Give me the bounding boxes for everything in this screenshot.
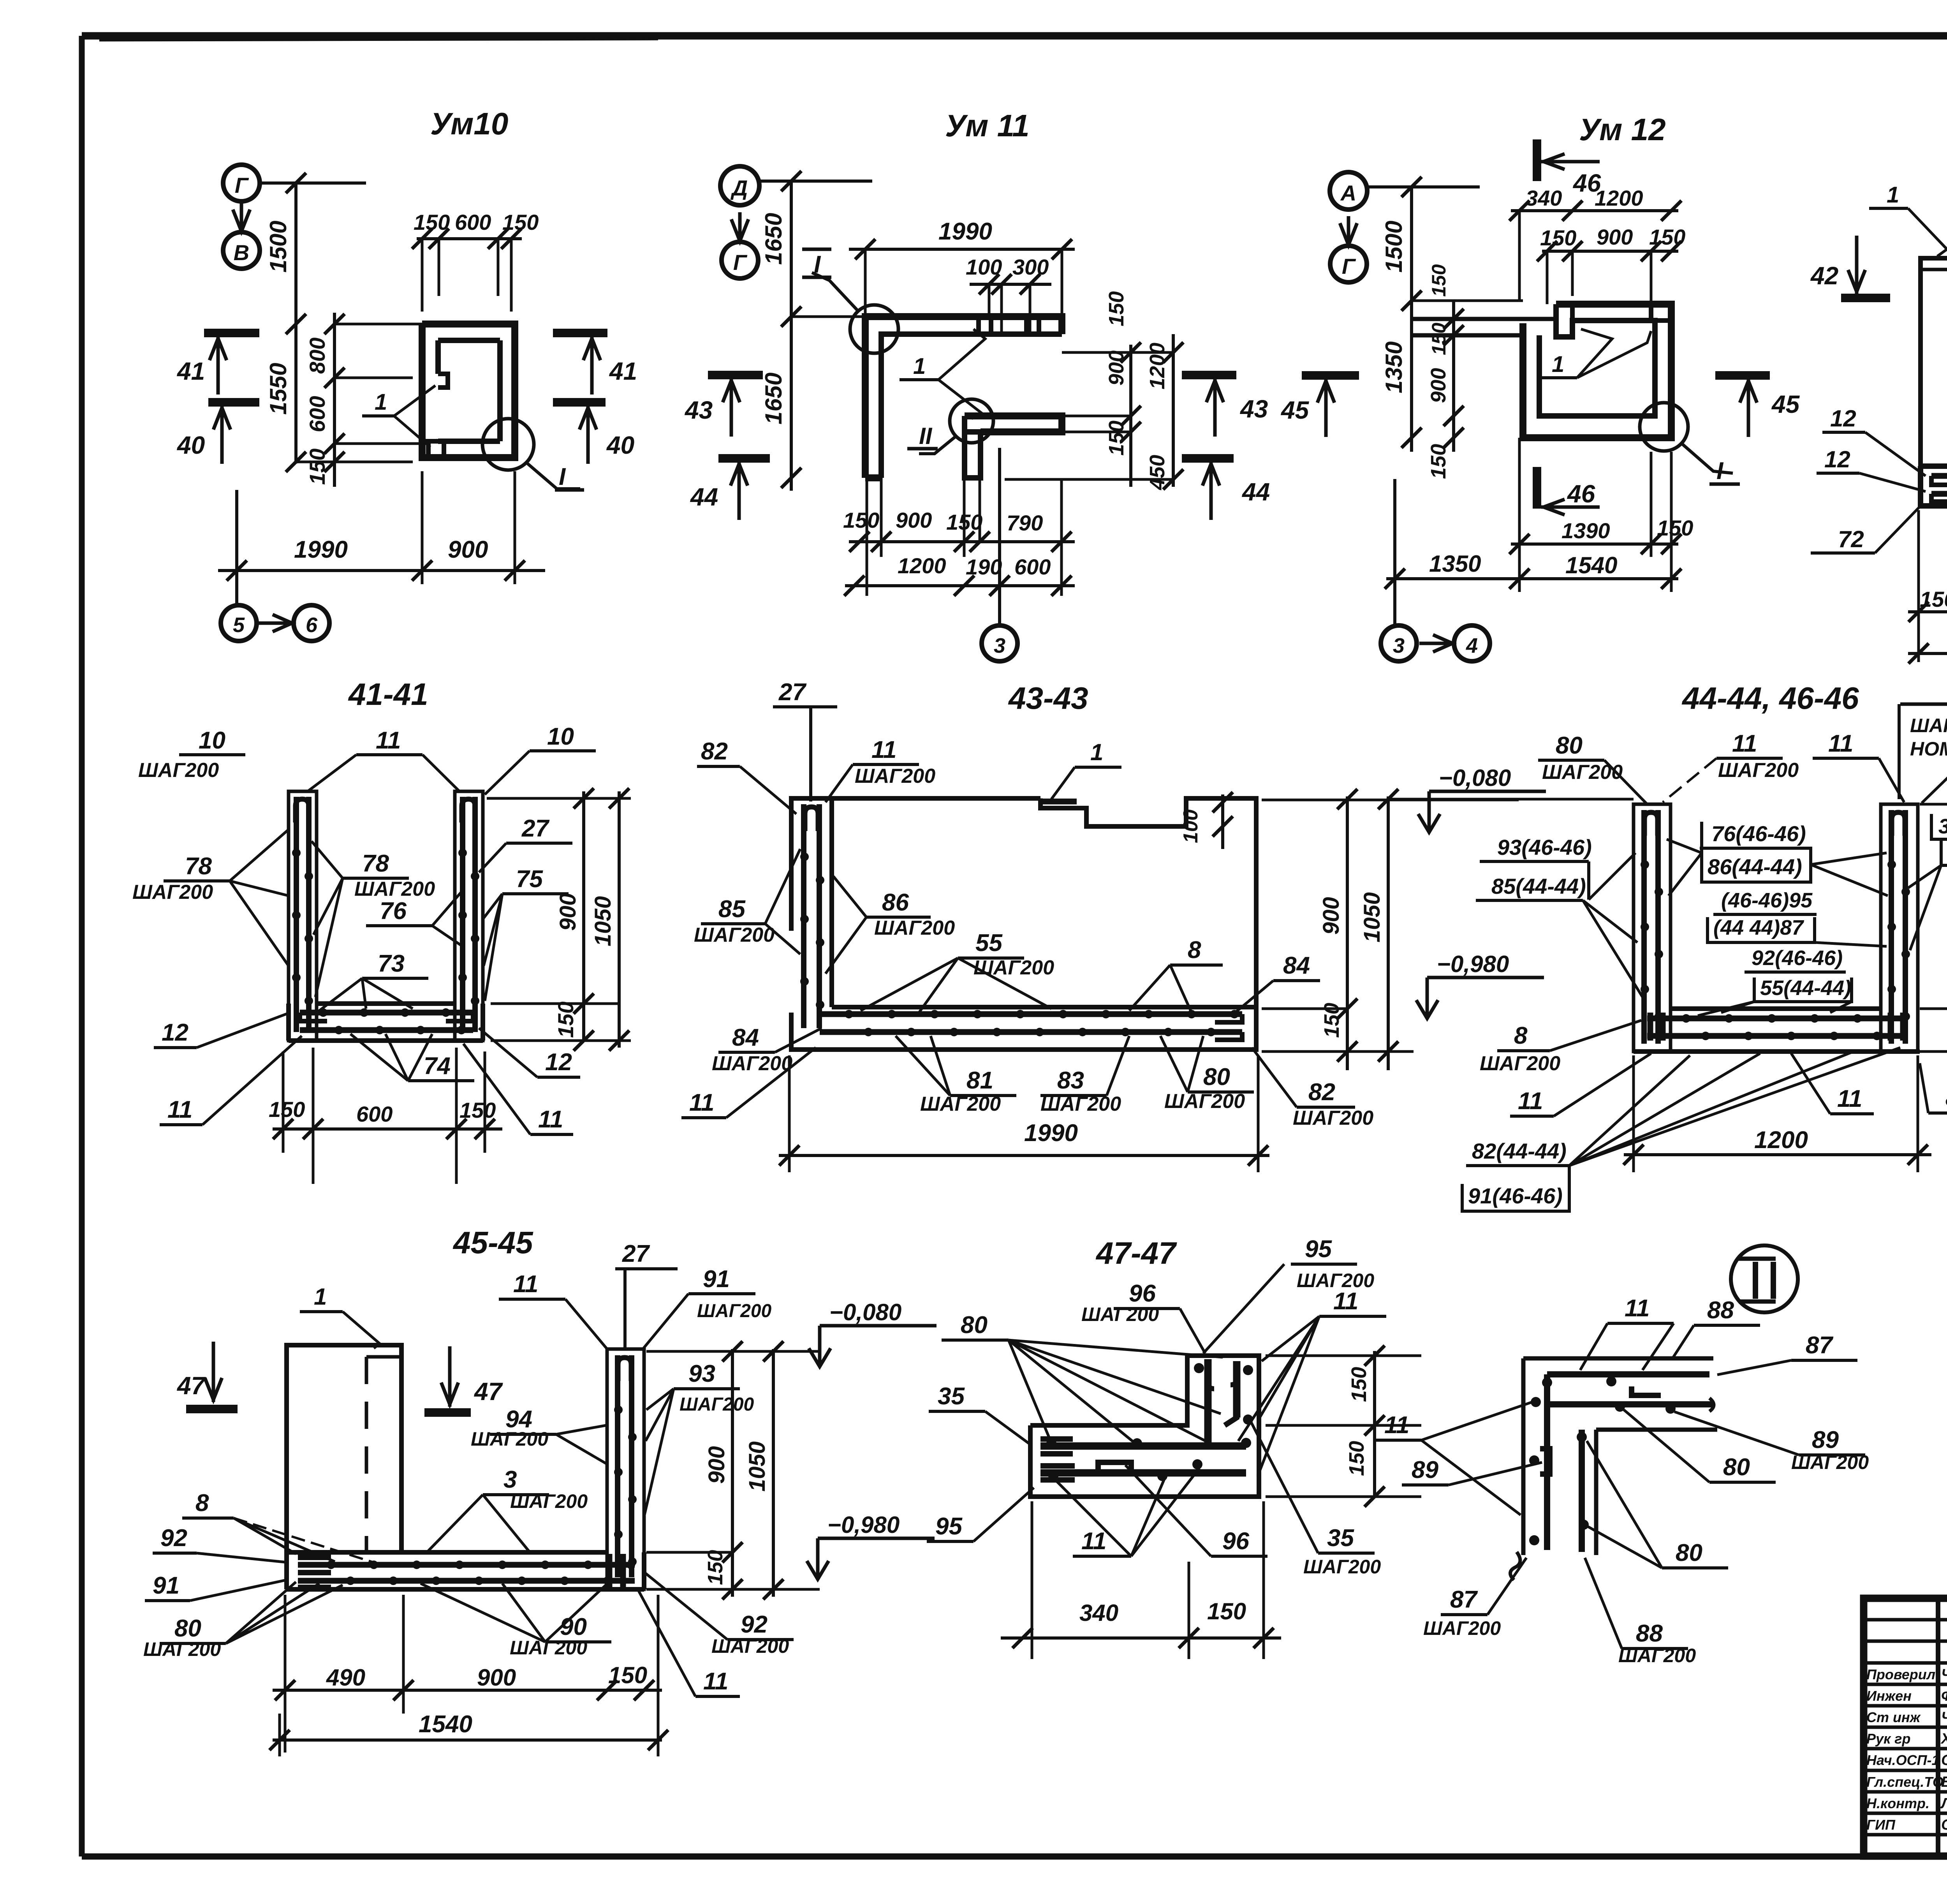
title 44-44 46-46: [1681, 681, 1859, 715]
svg-text:1540: 1540: [419, 1711, 472, 1738]
label 35 шаг200 bottom right (47-47): [1251, 1421, 1381, 1578]
svg-text:ШАГ200: ШАГ200: [974, 956, 1054, 979]
svg-text:Гл.спец.ТО: Гл.спец.ТО: [1866, 1774, 1943, 1790]
svg-text:ШАГ200: ШАГ200: [132, 881, 213, 904]
svg-text:35: 35: [1327, 1525, 1354, 1552]
svg-text:150: 150: [704, 1550, 727, 1585]
label 1 (45-45): [300, 1284, 380, 1348]
axis line and circle 3 (Um11): [982, 448, 1018, 661]
svg-text:150: 150: [1105, 291, 1128, 326]
svg-text:80: 80: [1556, 732, 1583, 759]
svg-text:Г: Г: [235, 173, 249, 197]
label 88(44-44) (44-44 right): [1908, 840, 1947, 950]
leader 1 (Um10): [362, 386, 435, 447]
svg-text:92: 92: [741, 1611, 768, 1638]
label 92(46-46) (44-44): [1745, 946, 1846, 972]
label 35(46-46) (44-44 right): [1931, 814, 1947, 839]
svg-text:900: 900: [1105, 351, 1128, 386]
svg-text:55(44-44): 55(44-44): [1760, 976, 1851, 1000]
label 8 шаг200 (44-44): [1480, 1020, 1641, 1075]
inner dim chain 150/150/900/150 rotated (Um12): [1427, 264, 1464, 479]
svg-text:Ст инж: Ст инж: [1866, 1709, 1921, 1725]
section mark 44 left (Um11): [690, 458, 770, 520]
svg-text:96: 96: [1129, 1280, 1156, 1307]
section mark 47 left (45-45): [176, 1342, 238, 1409]
label 91 left (45-45): [145, 1572, 288, 1601]
svg-text:4: 4: [1466, 634, 1478, 657]
svg-text:27: 27: [778, 679, 806, 706]
label 80 mid (detail II): [1624, 1410, 1776, 1482]
axis line circle 3 (Um12): [1381, 479, 1417, 661]
label 27 (41-41): [479, 815, 572, 872]
label 75 (41-41): [483, 866, 569, 1001]
svg-text:100: 100: [1179, 809, 1202, 843]
svg-text:1990: 1990: [294, 536, 348, 563]
right wall (44-44): [1881, 804, 1918, 1052]
label 80 (47-47): [942, 1312, 1223, 1447]
right wall (45-45): [607, 1349, 644, 1589]
svg-text:3: 3: [1393, 634, 1405, 657]
dimension 1990 top (Um11): [849, 218, 1075, 317]
detail II circled symbol: [1731, 1245, 1798, 1312]
svg-text:47: 47: [474, 1377, 503, 1406]
svg-text:11: 11: [376, 727, 401, 754]
svg-text:82: 82: [1308, 1079, 1335, 1106]
svg-text:83: 83: [1057, 1067, 1084, 1094]
right dim chain of 44-44 (900/1050/150): [1920, 794, 1947, 1062]
dim 340 1200 (Um12): [1509, 186, 1681, 301]
svg-text:44: 44: [690, 483, 718, 511]
svg-text:95: 95: [1305, 1236, 1332, 1263]
section mark 46 bottom (Um12): [1537, 467, 1600, 515]
svg-text:90: 90: [560, 1613, 587, 1640]
svg-text:11: 11: [871, 736, 896, 763]
label 11 left (detail II): [1375, 1402, 1532, 1515]
bottom dims 340 150 (47-47): [1001, 1501, 1281, 1659]
title 45-45: [452, 1225, 533, 1260]
svg-text:Д: Д: [731, 176, 748, 200]
label 1 (43-43): [1051, 739, 1121, 799]
svg-text:11: 11: [538, 1106, 563, 1133]
svg-text:1050: 1050: [590, 896, 616, 946]
svg-text:45: 45: [1280, 396, 1310, 424]
label 11 шаг200 center (44-44): [1663, 730, 1799, 802]
detail I circle (Um12): [1640, 403, 1740, 484]
svg-text:Г: Г: [1342, 254, 1356, 278]
svg-text:900: 900: [555, 893, 581, 931]
svg-text:91(46-46): 91(46-46): [1468, 1184, 1563, 1208]
svg-text:43: 43: [1239, 395, 1268, 423]
svg-text:80: 80: [961, 1312, 988, 1339]
svg-text:1990: 1990: [938, 218, 992, 245]
svg-text:ШАГ200: ШАГ200: [138, 759, 219, 782]
svg-text:10: 10: [547, 723, 574, 750]
axis circle Г (Um11): [722, 242, 758, 278]
svg-text:ШАГ200: ШАГ200: [1303, 1556, 1381, 1578]
svg-text:ШАГ200: ШАГ200: [1293, 1107, 1373, 1129]
svg-text:1500: 1500: [1381, 221, 1407, 273]
section mark 44 right (Um11): [1182, 458, 1270, 520]
svg-text:ШАГ200: ШАГ200: [711, 1635, 789, 1657]
label 12 right (41-41): [479, 1028, 580, 1077]
svg-text:11: 11: [1828, 730, 1853, 757]
svg-text:8: 8: [1514, 1022, 1528, 1049]
svg-text:ГИП: ГИП: [1866, 1817, 1896, 1833]
dimension 150 600 150 top (Um10): [412, 210, 539, 312]
svg-text:−0,080: −0,080: [829, 1299, 901, 1325]
svg-text:80: 80: [1203, 1064, 1230, 1090]
svg-text:1500: 1500: [265, 221, 291, 273]
label 10 top-right (41-41): [485, 723, 596, 794]
svg-text:150: 150: [1427, 444, 1450, 479]
label 86 шаг200 (43-43): [826, 876, 955, 974]
svg-text:900: 900: [1319, 897, 1344, 935]
svg-text:Чернявская: Чернявская: [1941, 1709, 1947, 1726]
axis circle Д (Um11): [720, 166, 759, 205]
svg-text:ШАГ200: ШАГ200: [1040, 1093, 1121, 1115]
svg-text:35: 35: [938, 1383, 965, 1410]
axis circle В (Um10): [223, 232, 260, 269]
svg-text:27: 27: [622, 1240, 650, 1267]
svg-text:ШАГ200: ШАГ200: [143, 1638, 221, 1660]
base slab (44-44): [1634, 1009, 1920, 1052]
label 82(44-44) (44-44): [1466, 1048, 1900, 1209]
label 96 bottom (47-47): [1125, 1465, 1267, 1556]
section mark 43 left (Um11): [684, 375, 763, 437]
plan outline Um12: [1413, 304, 1671, 438]
svg-text:Н.контр.: Н.контр.: [1866, 1795, 1929, 1811]
axis circle А (Um12): [1330, 172, 1367, 210]
svg-text:85: 85: [718, 896, 746, 923]
svg-text:1: 1: [314, 1284, 327, 1310]
svg-text:45-45: 45-45: [452, 1225, 533, 1260]
label 89 left (detail II): [1402, 1457, 1542, 1485]
svg-text:ШАГ200: ШАГ200: [1164, 1090, 1245, 1113]
svg-text:89: 89: [1812, 1427, 1839, 1453]
right wall (41-41): [455, 791, 483, 1041]
svg-text:93: 93: [688, 1360, 715, 1387]
label 74 (41-41): [350, 1034, 474, 1081]
svg-text:150: 150: [1345, 1441, 1368, 1476]
svg-text:150: 150: [1347, 1367, 1371, 1402]
svg-text:11: 11: [513, 1271, 538, 1298]
svg-text:ШАГ200: ШАГ200: [471, 1428, 548, 1450]
svg-text:150: 150: [553, 1002, 578, 1038]
dim 1200 (44-44): [1623, 1055, 1931, 1172]
label 27 (43-43): [773, 679, 837, 801]
section mark 41 right (Um10): [553, 333, 637, 395]
svg-text:150: 150: [1428, 322, 1450, 355]
svg-text:86(44-44): 86(44-44): [1708, 854, 1802, 879]
svg-text:II: II: [919, 423, 933, 449]
svg-text:5: 5: [233, 613, 245, 637]
svg-text:150: 150: [1540, 225, 1576, 250]
label 11 bottom-left (43-43): [681, 1048, 816, 1118]
bottom dims 150 600 150 (41-41): [269, 1048, 502, 1184]
label 11 top (45-45): [499, 1271, 607, 1349]
svg-text:Г: Г: [733, 250, 748, 275]
level -0.080 (43-43/44-44): [1418, 765, 1546, 832]
label 80 шаг200 (45-45): [143, 1582, 343, 1660]
svg-text:81: 81: [966, 1067, 993, 1094]
svg-text:900: 900: [1597, 225, 1633, 249]
svg-text:80: 80: [1723, 1454, 1750, 1481]
label 80 lower (detail II): [1587, 1441, 1728, 1568]
svg-text:ШАГ200: ШАГ200: [697, 1301, 772, 1321]
svg-text:44: 44: [1241, 478, 1270, 506]
dim 1350 1540 (Um12): [1385, 438, 1681, 592]
plan outline Um10: [362, 324, 515, 458]
svg-text:41: 41: [176, 357, 205, 385]
svg-text:600: 600: [455, 210, 491, 234]
svg-text:Ум 11: Ум 11: [945, 108, 1030, 143]
title block outer: [1864, 1598, 1947, 1856]
svg-text:ШАГ200: ШАГ200: [1791, 1451, 1869, 1473]
svg-text:I: I: [1716, 458, 1724, 484]
svg-text:В: В: [234, 240, 249, 265]
svg-text:600: 600: [1014, 555, 1051, 579]
bottom dim 150 900 150 790 (Um11): [843, 508, 1075, 552]
extension lines between 43-43 and 44-44: [1262, 800, 1519, 1052]
svg-text:92(46-46): 92(46-46): [1752, 946, 1843, 970]
svg-text:150: 150: [269, 1097, 305, 1122]
base slab (41-41): [289, 1004, 483, 1041]
svg-text:1350: 1350: [1429, 551, 1481, 577]
label 11 top (detail II): [1580, 1295, 1674, 1370]
label 88 шаг200 bottom (detail II): [1585, 1558, 1696, 1666]
svg-text:72: 72: [1838, 526, 1864, 552]
svg-text:Осташевский: Осташевский: [1941, 1817, 1947, 1833]
label 55 шаг200 (43-43): [861, 930, 1054, 1013]
svg-text:Саакьянц: Саакьянц: [1941, 1752, 1947, 1768]
svg-text:12: 12: [1830, 405, 1856, 432]
svg-text:43: 43: [684, 396, 713, 424]
label 84 шаг200 bottom-left (43-43): [712, 1024, 822, 1075]
slab (43-43): [820, 1007, 1256, 1040]
label 94 шаг200 (45-45): [471, 1406, 607, 1464]
svg-text:43-43: 43-43: [1008, 681, 1088, 715]
svg-text:47: 47: [176, 1372, 206, 1400]
label 10 шаг200 top-left (41-41): [138, 727, 245, 782]
axis circle Г (Um12): [1330, 246, 1367, 282]
svg-text:11: 11: [1732, 730, 1757, 757]
adjacent column (45-45): [287, 1345, 401, 1552]
label 73 (41-41): [319, 950, 428, 1011]
svg-text:ШАГ200: ШАГ200: [855, 765, 935, 787]
svg-text:11: 11: [689, 1089, 714, 1116]
label 90 шаг200 (45-45): [421, 1583, 611, 1659]
svg-text:150: 150: [1320, 1003, 1343, 1038]
svg-text:78: 78: [362, 850, 389, 877]
svg-text:Проверил: Проверил: [1866, 1666, 1935, 1682]
svg-text:1540: 1540: [1565, 552, 1617, 578]
svg-text:40: 40: [176, 431, 205, 459]
label (46-46)95 (44-44): [1713, 889, 1817, 914]
svg-text:87: 87: [1806, 1332, 1833, 1359]
svg-text:82(44-44): 82(44-44): [1472, 1139, 1567, 1163]
svg-text:150: 150: [1657, 516, 1693, 540]
corner shape (detail II): [1510, 1358, 1717, 1580]
svg-text:11: 11: [1518, 1088, 1543, 1115]
label 93 шаг200 (45-45): [644, 1360, 754, 1515]
label 88 top (detail II): [1672, 1297, 1760, 1358]
svg-text:73: 73: [378, 950, 405, 977]
right dim chain 150/900/150 (Um11): [1062, 291, 1173, 487]
section mark 47 mid (45-45): [424, 1346, 503, 1413]
label 84 right (43-43): [1231, 952, 1320, 1016]
svg-text:ШАГ200: ШАГ200: [1542, 761, 1623, 784]
svg-text:1650: 1650: [760, 213, 787, 265]
svg-text:8: 8: [195, 1490, 209, 1517]
label 91 шаг200 top (45-45): [643, 1266, 772, 1349]
dimension chain 800/600/150 (Um10): [296, 313, 422, 487]
svg-text:11: 11: [1333, 1288, 1358, 1315]
label 11 bottom-left (41-41): [160, 1036, 302, 1125]
svg-text:86: 86: [882, 889, 909, 916]
svg-text:76: 76: [380, 898, 407, 925]
svg-text:Луценко: Луценко: [1940, 1795, 1947, 1812]
svg-text:1350: 1350: [1381, 342, 1407, 393]
title block signature table: [1864, 1598, 1947, 1856]
label 91(46-46) boxed (44-44): [1462, 1184, 1569, 1211]
svg-text:55: 55: [975, 930, 1003, 956]
bottom dim 1540 (45-45): [269, 1595, 668, 1756]
svg-text:95: 95: [935, 1513, 963, 1540]
axis circle 4 (Um12): [1454, 625, 1490, 661]
label 83 шаг200 (43-43): [1040, 1036, 1129, 1115]
svg-text:96: 96: [1222, 1528, 1249, 1555]
svg-text:900: 900: [896, 508, 932, 532]
label 11 bottom-right (41-41): [463, 1044, 573, 1134]
label (44 44)87 boxed (44-44): [1708, 916, 1887, 946]
label 11 шаг200 (43-43): [826, 736, 935, 802]
svg-text:44-44, 46-46: 44-44, 46-46: [1681, 681, 1859, 715]
svg-text:ШАГ200: ШАГ200: [1480, 1052, 1560, 1075]
svg-text:1050: 1050: [745, 1441, 770, 1492]
svg-text:Ханин: Ханин: [1940, 1731, 1947, 1747]
svg-text:150: 150: [1207, 1598, 1246, 1624]
big outline (43-43): [791, 798, 1256, 1050]
detail I circle (Um11): [802, 249, 898, 353]
svg-text:8: 8: [1188, 937, 1201, 963]
label 8 (45-45): [182, 1490, 374, 1562]
svg-text:11: 11: [1625, 1295, 1649, 1322]
svg-text:1990: 1990: [1024, 1120, 1078, 1147]
section mark 41 left (Um10): [176, 333, 259, 395]
svg-text:84: 84: [1283, 952, 1310, 979]
label 78 шаг200 left (41-41): [132, 830, 289, 966]
svg-text:900: 900: [477, 1664, 516, 1691]
svg-text:340: 340: [1526, 186, 1562, 210]
detail I circle (Um10): [482, 419, 584, 490]
right dim chain 900/150 (41-41): [487, 788, 631, 1051]
section mark 40 right (Um10): [553, 402, 634, 464]
svg-text:Ум 12: Ум 12: [1579, 112, 1666, 147]
plan outline Um11: [865, 317, 1062, 478]
svg-text:74: 74: [424, 1053, 451, 1080]
svg-text:Чернявская: Чернявская: [1941, 1666, 1947, 1683]
svg-text:1200: 1200: [898, 553, 946, 578]
axis circle 6 (Um10): [294, 605, 329, 641]
svg-text:1: 1: [1552, 352, 1564, 377]
svg-text:ШАГ200: ШАГ200: [694, 924, 775, 946]
level -0.980 (43-43/44-44): [1416, 951, 1544, 1018]
label 89 шаг200 right (detail II): [1674, 1412, 1869, 1473]
svg-text:Инжен: Инжен: [1866, 1688, 1912, 1704]
leader 1 (Um12): [1540, 329, 1651, 378]
slab (47-47): [1040, 1438, 1246, 1481]
svg-text:91: 91: [703, 1266, 730, 1293]
svg-text:11: 11: [1837, 1085, 1862, 1112]
svg-text:1: 1: [1090, 739, 1103, 765]
svg-text:11: 11: [167, 1096, 192, 1123]
svg-text:−0,080: −0,080: [1439, 765, 1511, 791]
svg-text:76(46-46): 76(46-46): [1711, 821, 1806, 846]
svg-text:А: А: [1340, 181, 1356, 205]
svg-text:80: 80: [1676, 1539, 1702, 1566]
svg-text:Рук гр: Рук гр: [1866, 1731, 1910, 1747]
svg-text:93(46-46): 93(46-46): [1497, 835, 1592, 860]
left wall (44-44): [1634, 804, 1671, 1052]
svg-text:1200: 1200: [1595, 186, 1643, 210]
svg-text:300: 300: [1012, 255, 1049, 279]
svg-text:88: 88: [1707, 1297, 1734, 1324]
adjacent wall (40-40): [1921, 258, 1947, 466]
label 80 шаг200 (44-44): [1538, 732, 1647, 804]
svg-text:8: 8: [1945, 1085, 1947, 1111]
svg-text:85(44-44): 85(44-44): [1491, 874, 1586, 898]
svg-text:ШАГ200: ШАГ200: [712, 1052, 792, 1075]
title Ум10: [430, 106, 508, 141]
bottom dim 1200 190 600 (Um11): [844, 478, 1075, 596]
label 11 right (44-44): [1813, 730, 1904, 802]
left wall rebar (43-43): [800, 798, 832, 1028]
axis arrow Г-В (Um10): [233, 201, 250, 234]
svg-text:40: 40: [606, 431, 634, 459]
svg-text:(46-46)95: (46-46)95: [1721, 889, 1813, 912]
svg-text:Нач.ОСП-1: Нач.ОСП-1: [1866, 1752, 1940, 1768]
right dim 1050 (41-41): [590, 788, 629, 1051]
svg-text:ШАГ200: ШАГ200: [510, 1490, 588, 1512]
bottom dims 490 900 150 (45-45): [273, 1595, 662, 1753]
svg-text:80: 80: [174, 1615, 201, 1642]
svg-text:1050: 1050: [1359, 892, 1385, 942]
svg-text:ШАГ400 В ШАХМАТ−: ШАГ400 В ШАХМАТ−: [1910, 715, 1947, 736]
svg-text:92: 92: [160, 1525, 187, 1552]
svg-text:27: 27: [521, 815, 549, 842]
dimension 1650 1650 left chain (Um11): [760, 171, 872, 491]
svg-text:Федотова: Федотова: [1941, 1688, 1947, 1704]
svg-text:−0,980: −0,980: [1437, 951, 1509, 977]
dim 1990 (43-43): [779, 1055, 1269, 1172]
svg-text:12: 12: [545, 1049, 572, 1076]
label 96 шаг200 (47-47): [1081, 1280, 1205, 1353]
label 3 шаг200 (45-45): [428, 1466, 588, 1552]
svg-text:1: 1: [1887, 182, 1899, 208]
label 95 шаг200 top (47-47): [1203, 1236, 1374, 1353]
label 82 left (43-43): [697, 738, 796, 814]
svg-text:42: 42: [1810, 262, 1838, 290]
svg-text:1200: 1200: [1146, 343, 1169, 389]
dim 150 900 150 (Um12): [1537, 225, 1685, 304]
axis arrow 5-6 (Um10): [257, 615, 292, 632]
label 85(44-44) (44-44): [1476, 874, 1642, 997]
label 55(44-44) boxed (44-44): [1698, 976, 1852, 1016]
svg-text:790: 790: [1007, 511, 1043, 535]
svg-text:150: 150: [1428, 264, 1450, 297]
svg-text:84: 84: [732, 1024, 759, 1051]
label 27 (45-45): [615, 1240, 678, 1349]
